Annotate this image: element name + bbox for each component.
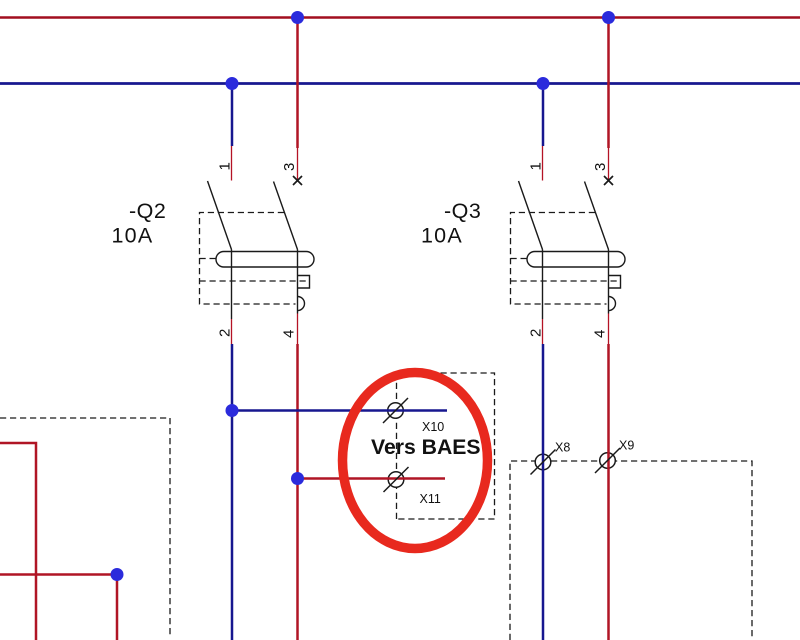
dashed enclosure box bottom-left: [0, 418, 170, 636]
Q3 pin 2 stub: [542, 319, 544, 344]
wire: blue drop from N bus to Q2 pin 1: [231, 84, 234, 147]
terminal X9 circle: [600, 453, 616, 469]
Q2 pole 2 conductor through trip unit: [297, 250, 299, 314]
Q3 magnetic trip semicircle: [609, 297, 616, 311]
Q2 pin 4 stub: [297, 314, 299, 345]
wire: red feeder bottom-left lower: [0, 575, 117, 640]
svg-text:X11: X11: [420, 492, 441, 506]
svg-text:1: 1: [217, 162, 234, 170]
terminal X8 circle: [535, 454, 551, 470]
terminal X11 circle: [388, 472, 404, 488]
Q2 pole 1 conductor through trip unit: [231, 250, 233, 320]
wire: red feeder bottom-left upper: [0, 443, 36, 640]
svg-text:X9: X9: [619, 439, 634, 453]
Q2 pole 1 switch blade: [208, 181, 232, 250]
wire: blue branch to terminal X10: [232, 409, 447, 412]
junction node blue branch to X10: [226, 404, 239, 417]
breaker Q3: [511, 146, 626, 344]
junction node on N bus at Q3 drop: [537, 77, 550, 90]
Q2 thermal trip square: [298, 276, 310, 289]
Q2 magnetic trip semicircle: [298, 297, 305, 311]
Q2 pole 2 switch blade: [274, 182, 298, 250]
svg-text:Vers BAES: Vers BAES: [371, 436, 481, 459]
svg-text:-Q2: -Q2: [129, 199, 166, 223]
wire: blue neutral bus N: [0, 82, 800, 85]
wire: red drop from L bus to Q2 pin 3: [296, 18, 299, 149]
Q3 pole 2 switch blade: [585, 182, 609, 250]
junction node red branch to X11: [291, 472, 304, 485]
svg-text:2: 2: [217, 329, 234, 337]
svg-text:4: 4: [281, 330, 298, 338]
Q2 pin 2 stub: [231, 319, 233, 344]
Q2 pin 1 stub: [231, 146, 233, 181]
junction node bottom-left feeder: [111, 568, 124, 581]
wire: blue from Q2 pin 2 down to bottom: [231, 344, 234, 640]
svg-text:3: 3: [281, 163, 298, 171]
svg-text:3: 3: [592, 163, 609, 171]
Q3 pin 3 stub: [608, 148, 610, 181]
svg-text:10A: 10A: [421, 224, 463, 248]
Q3 dashed linkage frame: [511, 213, 621, 305]
Q2 pin 3 x marker: [293, 176, 302, 185]
dashed enclosure box right (X8/X9): [510, 461, 752, 640]
dashed enclosure box Vers BAES (X10/X11): [397, 373, 495, 519]
Q3 pole 2 conductor through trip unit: [608, 250, 610, 314]
svg-text:2: 2: [528, 329, 545, 337]
junction node on L bus at Q2 drop: [291, 11, 304, 24]
wire: red drop from L bus to Q3 pin 3: [607, 18, 610, 149]
svg-text:X8: X8: [555, 441, 570, 455]
highlight ellipse annotation: [343, 373, 488, 549]
terminal X8 slash: [531, 450, 556, 475]
Q3 pin 1 stub: [542, 146, 544, 181]
Q2 pin 3 stub: [297, 148, 299, 181]
Q3 pin 4 stub: [608, 314, 610, 345]
svg-text:1: 1: [528, 162, 545, 170]
terminal X11 slash: [384, 467, 409, 492]
terminal X9 slash: [595, 448, 620, 473]
svg-text:10A: 10A: [112, 224, 154, 248]
Q3 mechanical linkage capsule: [527, 252, 625, 268]
Q3 pin 3 x marker: [604, 176, 613, 185]
Q2 dashed linkage frame: [200, 213, 310, 305]
wire: red phase bus L: [0, 16, 800, 19]
svg-text:4: 4: [592, 330, 609, 338]
junction node on L bus at Q3 drop: [602, 11, 615, 24]
svg-text:-Q3: -Q3: [444, 199, 481, 223]
Q3 pole 1 conductor through trip unit: [542, 250, 544, 320]
Q3 pole 1 switch blade: [519, 181, 543, 250]
breaker Q2: [200, 146, 315, 344]
Q2 mechanical linkage capsule: [216, 252, 314, 268]
wire: blue from Q3 pin 2 down through X8: [542, 344, 545, 640]
wire: red branch to terminal X11: [298, 477, 446, 480]
wire: blue drop from N bus to Q3 pin 1: [542, 84, 545, 147]
svg-text:X10: X10: [422, 420, 444, 434]
terminal X10 slash: [383, 398, 408, 423]
Q3 thermal trip square: [609, 276, 621, 289]
junction node on N bus at Q2 drop: [226, 77, 239, 90]
terminal X10 circle: [388, 403, 404, 419]
wire: red from Q3 pin 4 down through X9: [607, 344, 610, 640]
wire: red from Q2 pin 4 down to bottom: [296, 344, 299, 640]
